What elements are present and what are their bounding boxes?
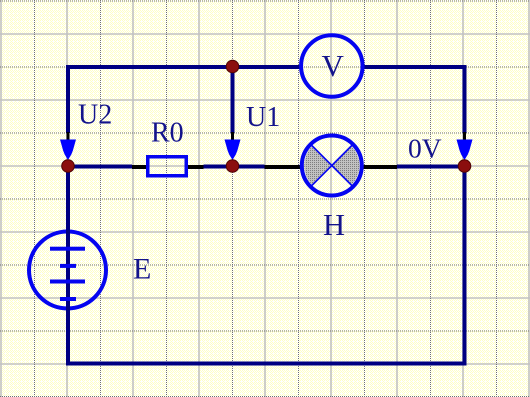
wire bottom horizontal — [66, 362, 467, 366]
wire middle row resistor lead to lamp lead — [204, 165, 265, 169]
black probe stub above 0V arrow — [463, 132, 466, 141]
svg-text:0V: 0V — [408, 133, 442, 164]
svg-text:U2: U2 — [78, 100, 112, 131]
wire left vertical upper — [66, 65, 70, 133]
arrow U1 — [225, 140, 241, 161]
svg-text:U1: U1 — [246, 102, 280, 133]
wire middle row U2 node to resistor lead — [66, 165, 132, 169]
junction dot top node — [226, 60, 239, 73]
black lead left of resistor R0 — [132, 165, 146, 169]
svg-text:H: H — [323, 208, 345, 242]
lamp H left gray quadrant — [304, 146, 332, 185]
battery plate long top — [50, 247, 85, 251]
wire top horizontal right of voltmeter — [363, 65, 467, 69]
wire U1 vertical — [231, 67, 235, 134]
battery plate short upper — [60, 264, 76, 268]
svg-text:R0: R0 — [151, 118, 184, 149]
lamp H circle — [302, 136, 362, 196]
wire middle row lamp lead to 0V node — [397, 165, 465, 169]
black lead right of resistor R0 — [186, 165, 204, 169]
lamp H cross line NW-SE — [312, 145, 353, 186]
black lead right of lamp H — [362, 165, 397, 169]
wire top horizontal left of voltmeter — [66, 65, 301, 69]
junction dot U1 node — [226, 160, 239, 173]
black lead left of lamp H — [265, 165, 303, 169]
resistor R0 — [148, 157, 187, 176]
wire right vertical lower — [463, 166, 467, 366]
arrow 0V — [457, 140, 473, 161]
junction dot U2 node — [62, 160, 75, 173]
arrow U2 — [60, 140, 76, 161]
junction dot 0V node — [458, 160, 471, 173]
voltmeter V circle — [301, 35, 363, 97]
svg-text:V: V — [322, 48, 345, 83]
battery plate long bottom — [50, 280, 85, 284]
svg-text:E: E — [133, 253, 151, 286]
battery E circle — [29, 232, 106, 309]
wire left vertical through battery — [66, 166, 70, 366]
lamp H right gray quadrant — [332, 146, 360, 185]
black probe stub above U1 arrow — [231, 132, 234, 141]
wire right vertical upper — [463, 65, 467, 133]
battery plate short lower — [60, 297, 76, 301]
black probe stub above U2 arrow — [67, 132, 70, 141]
lamp H cross line NE-SW — [312, 145, 353, 186]
